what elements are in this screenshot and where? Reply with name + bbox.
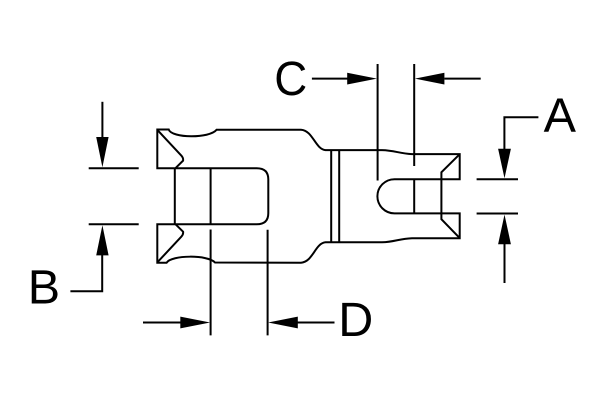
svg-text:B: B [28, 260, 60, 314]
svg-text:D: D [338, 293, 373, 347]
svg-text:A: A [544, 89, 577, 143]
svg-text:C: C [274, 52, 307, 106]
